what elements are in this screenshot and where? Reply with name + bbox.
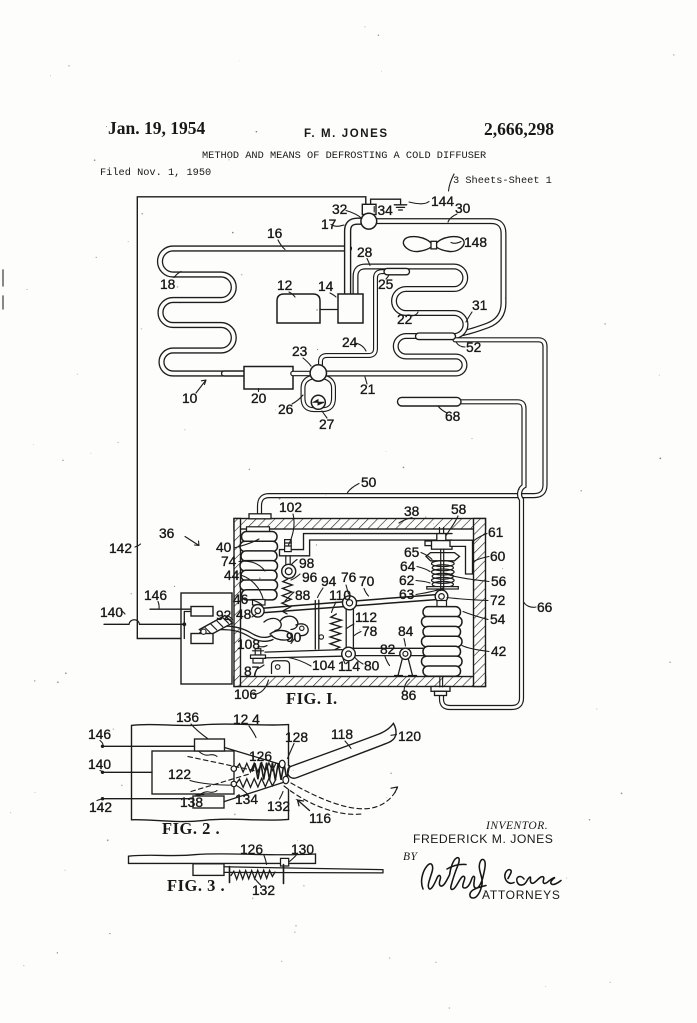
wire 142 frame: left vertical and top run to motor: [137, 197, 365, 639]
label 34: [374, 203, 393, 218]
box wall right: [474, 519, 486, 687]
svg-text:112: 112: [355, 610, 377, 625]
condenser coil 22 with discharge pipe 28: [326, 267, 466, 374]
FIG.2 labels: [88, 710, 421, 838]
svg-text:18: 18: [160, 277, 176, 292]
svg-text:FIG. I.: FIG. I.: [286, 689, 338, 708]
leader 136: [191, 724, 208, 739]
svg-text:42: 42: [491, 644, 506, 659]
svg-text:40: 40: [216, 540, 232, 555]
svg-text:98: 98: [299, 556, 315, 571]
svg-text:2,666,298: 2,666,298: [484, 119, 554, 139]
svg-text:114: 114: [338, 659, 360, 674]
svg-text:METHOD AND MEANS OF DEFROSTING: METHOD AND MEANS OF DEFROSTING A COLD DI…: [202, 150, 486, 162]
contact arm 92: [200, 616, 233, 637]
terminal block lower 142: [191, 634, 213, 644]
leader 52: [456, 342, 465, 347]
spring lower: [236, 778, 276, 787]
spring 132 side view: [231, 870, 275, 879]
svg-text:90: 90: [286, 630, 302, 645]
leader 63: [416, 588, 443, 595]
svg-text:36: 36: [159, 526, 175, 541]
leader 60: [474, 557, 490, 562]
contact arm 104: [265, 650, 342, 658]
svg-text:BY: BY: [403, 851, 419, 863]
svg-text:54: 54: [490, 612, 506, 627]
svg-text:INVENTOR.: INVENTOR.: [485, 820, 548, 832]
FIG.1 labels: [100, 500, 553, 708]
FIG.3 leaders: [256, 856, 297, 886]
svg-text:27: 27: [319, 417, 334, 432]
leader 102: [289, 514, 295, 545]
leader 22: [412, 312, 418, 316]
leader 10: [196, 380, 206, 393]
small stud on terminal: [201, 629, 206, 634]
bracket 106: [272, 661, 290, 674]
leader 126: [264, 856, 267, 865]
pivot 76: [343, 596, 357, 610]
svg-text:140: 140: [88, 757, 111, 772]
svg-text:50: 50: [361, 475, 377, 490]
leader 124: [249, 726, 256, 738]
svg-text:78: 78: [362, 624, 378, 639]
leader 98: [291, 560, 297, 566]
leader 50: [348, 484, 360, 493]
leader 132: [256, 880, 262, 886]
leader 80: [355, 658, 363, 665]
leader 21: [365, 377, 367, 384]
leaders top: [174, 211, 472, 493]
leader 110: [332, 602, 337, 613]
leader 106: [253, 680, 269, 695]
svg-text:134: 134: [235, 792, 258, 807]
svg-text:Jan. 19, 1954: Jan. 19, 1954: [108, 118, 205, 138]
leader 36 arrow: [185, 537, 199, 546]
leader 78: [354, 632, 362, 637]
leader 46: [251, 600, 262, 606]
leader 76: [346, 585, 349, 594]
svg-text:21: 21: [360, 382, 375, 397]
leader 126: [259, 763, 263, 771]
foot 86 below box: [431, 687, 450, 692]
pipe 30 condenser loop: [377, 221, 504, 333]
leader 38: [399, 518, 412, 524]
label 144: [409, 194, 454, 209]
svg-text:12: 12: [277, 278, 292, 293]
leader 20: [258, 389, 260, 392]
svg-text:132: 132: [267, 799, 290, 814]
link 12-14: [320, 309, 338, 311]
svg-text:142: 142: [109, 541, 132, 556]
FIG.2 leaders: [97, 724, 397, 801]
pipe 24 liquid line with inner tube to 25: [321, 272, 398, 365]
compressor 32: [361, 213, 377, 229]
leader 130: [290, 856, 297, 862]
leader 112: [346, 624, 354, 629]
leader 12: [289, 292, 295, 297]
pivot 84 with bracket 82: [398, 656, 413, 676]
plate 124 with break edges: [132, 724, 289, 822]
svg-text:38: 38: [404, 504, 420, 519]
svg-text:48: 48: [236, 607, 252, 622]
svg-text:102: 102: [279, 500, 302, 515]
leader 54: [463, 612, 488, 620]
leader 65: [421, 553, 432, 560]
bus wire: [184, 612, 191, 639]
bracket 100 shelf: [280, 534, 453, 556]
signature script Whitely & Caine: [422, 858, 561, 898]
bellows 40: [240, 527, 278, 605]
wire 146: [150, 608, 191, 610]
leader 90: [291, 639, 294, 644]
leader 14: [330, 293, 336, 297]
spring 56: [432, 577, 455, 583]
svg-text:63: 63: [399, 587, 415, 602]
leader 27: [322, 411, 327, 418]
capillary 66 from tube 68 down to bellows foot: [442, 402, 525, 708]
leader 23: [303, 358, 311, 366]
washer 63: [427, 587, 459, 589]
svg-text:88: 88: [295, 588, 311, 603]
svg-text:FIG. 3 .: FIG. 3 .: [167, 876, 225, 895]
clamp 128 rings: [279, 760, 285, 767]
svg-text:52: 52: [466, 340, 481, 355]
leader 74: [239, 561, 265, 571]
leader 146: [100, 741, 103, 745]
leader 48: [252, 613, 257, 617]
leader 120: [391, 734, 397, 737]
svg-text:28: 28: [357, 245, 373, 260]
svg-text:70: 70: [359, 574, 375, 589]
svg-text:F. M. JONES: F. M. JONES: [304, 128, 389, 140]
frame 78 link: [346, 604, 353, 652]
svg-text:108: 108: [237, 637, 260, 652]
evaporator coil 18 serpentine with suction line 16: [160, 249, 349, 374]
leader 40: [234, 539, 259, 548]
leader 70: [364, 589, 369, 597]
leader 96: [291, 574, 300, 580]
leader 140: [121, 611, 125, 615]
svg-text:138: 138: [180, 795, 203, 810]
svg-text:94: 94: [321, 574, 337, 589]
leader 58: [447, 516, 459, 535]
leader 142: [97, 799, 102, 801]
svg-text:120: 120: [398, 729, 421, 744]
leader 138: [196, 794, 204, 797]
bolt of 98: [285, 540, 292, 566]
svg-text:86: 86: [401, 688, 417, 703]
bellows 42 / 54: [422, 601, 463, 677]
svg-text:72: 72: [490, 593, 505, 608]
leader 62: [416, 581, 430, 584]
leader 114: [343, 659, 345, 664]
svg-text:130: 130: [291, 842, 314, 857]
holder block 138: [193, 796, 224, 808]
svg-text:104: 104: [312, 658, 335, 673]
svg-text:142: 142: [89, 800, 112, 815]
pivot 48: [251, 605, 264, 618]
svg-text:34: 34: [378, 203, 394, 218]
leader 28: [367, 259, 370, 266]
svg-text:122: 122: [168, 767, 191, 782]
svg-text:61: 61: [488, 525, 503, 540]
dashed swung blade ghost: [291, 783, 398, 809]
box wall left: [234, 519, 241, 687]
svg-text:17: 17: [321, 217, 336, 232]
leader 25: [386, 275, 389, 279]
svg-text:32: 32: [332, 202, 347, 217]
svg-text:ATTORNEYS: ATTORNEYS: [482, 888, 561, 902]
leader 32: [346, 211, 362, 219]
valve 27: [311, 395, 325, 409]
svg-text:65: 65: [404, 545, 420, 560]
motor box 34: [362, 204, 376, 214]
leader 17: [331, 225, 344, 227]
accumulator tube 68: [398, 397, 462, 406]
terminal 87: [251, 649, 266, 663]
leader 87: [258, 665, 264, 669]
wire to ground: [371, 199, 401, 204]
svg-text:26: 26: [278, 402, 294, 417]
svg-text:FREDERICK M. JONES: FREDERICK M. JONES: [413, 832, 553, 846]
opening 122: [152, 751, 234, 794]
ghost arrowhead: [391, 787, 398, 793]
valve stem: [441, 549, 444, 590]
leader 82: [385, 657, 390, 666]
svg-text:84: 84: [398, 624, 414, 639]
svg-text:116: 116: [309, 811, 331, 826]
svg-text:22: 22: [397, 312, 412, 327]
pivot 114: [342, 647, 356, 661]
svg-text:118: 118: [331, 727, 353, 742]
leader 56: [445, 574, 489, 582]
leader 66: [524, 603, 536, 608]
leader 42: [462, 646, 489, 652]
FIG.1 leaders: [121, 514, 536, 695]
unit 12: [277, 294, 320, 323]
leader 68: [438, 406, 447, 413]
leader 44: [242, 576, 263, 599]
svg-text:74: 74: [221, 554, 237, 569]
switch housing 36: [181, 593, 232, 684]
labels top system: [160, 201, 487, 490]
header text: [100, 118, 554, 187]
leader 134: [237, 786, 249, 795]
leader 128: [288, 744, 295, 759]
clip 130: [281, 858, 289, 866]
expansion valve 23: [310, 365, 326, 381]
leader 140: [100, 771, 103, 773]
ground 144: [394, 205, 406, 210]
bracket 61: [450, 540, 473, 574]
roller 98: [282, 564, 296, 578]
sensing tube 52: [416, 333, 456, 340]
motion arrow 116: [298, 800, 310, 811]
svg-text:146: 146: [88, 727, 111, 742]
leader 18: [174, 272, 181, 278]
leader 94: [318, 588, 324, 598]
pipe 20 to valve 23: [293, 371, 312, 377]
leader 16: [278, 240, 285, 250]
bottom link 80 to bellows: [352, 648, 438, 655]
svg-text:12 4: 12 4: [233, 712, 260, 727]
svg-text:3 Sheets-Sheet 1: 3 Sheets-Sheet 1: [453, 175, 552, 187]
svg-text:23: 23: [292, 344, 308, 359]
leader 24: [355, 343, 366, 351]
svg-text:148: 148: [464, 235, 487, 250]
box wall top (38): [234, 519, 486, 530]
spring 134 upper: [236, 763, 276, 772]
holder block: [193, 864, 224, 876]
blade edge-on: [224, 867, 383, 873]
heat exchanger tube end 25: [384, 268, 410, 274]
svg-text:44: 44: [224, 568, 240, 583]
wire 140 with crossover hump: [104, 620, 184, 625]
sheet leader mark: [449, 174, 455, 191]
pipe 50 capillary and riser from 52: [260, 340, 546, 516]
left edge scan marks: [2, 270, 4, 309]
leader 118: [345, 741, 351, 749]
leader 88: [285, 592, 294, 601]
main lever 70: [256, 594, 441, 613]
box wall bottom: [234, 677, 486, 687]
pipe 17 riser to compressor and down to unit 14: [348, 221, 362, 295]
spring 62: [432, 561, 455, 588]
spring 96: [282, 579, 292, 614]
svg-text:96: 96: [302, 570, 318, 585]
pivot 72: [435, 590, 448, 603]
leader 122: [190, 781, 232, 786]
bimetal coil 126/132 dense: [253, 763, 290, 780]
svg-text:132: 132: [252, 883, 275, 898]
leader 64: [417, 567, 430, 572]
leader 146: [158, 602, 159, 609]
svg-text:10: 10: [182, 391, 198, 406]
svg-text:58: 58: [451, 502, 467, 517]
leader 132: [280, 792, 284, 800]
leader 148: [451, 242, 461, 244]
unit 14: [338, 294, 363, 323]
terminal flange 102: [249, 514, 271, 519]
FIG.3 labels: [167, 842, 314, 898]
svg-text:20: 20: [251, 391, 267, 406]
svg-text:62: 62: [399, 573, 414, 588]
leader 72: [447, 598, 488, 601]
dashed ghost lines in plate: [188, 757, 398, 815]
svg-text:60: 60: [490, 549, 506, 564]
spring 112: [330, 614, 341, 650]
svg-text:64: 64: [400, 559, 416, 574]
svg-text:136: 136: [176, 710, 199, 725]
leader 108: [258, 646, 267, 647]
bypass loop 26: [303, 378, 334, 410]
leader 26: [292, 395, 303, 404]
mounting plate: [129, 854, 316, 864]
svg-text:66: 66: [537, 600, 553, 615]
defroster blade 118 / 120: [288, 723, 396, 778]
leader 86: [404, 679, 410, 692]
svg-text:146: 146: [144, 588, 167, 603]
svg-text:Filed Nov. 1, 1950: Filed Nov. 1, 1950: [100, 167, 211, 179]
svg-text:16: 16: [267, 226, 283, 241]
leader 84: [404, 639, 406, 647]
leader 30: [448, 214, 457, 222]
svg-text:68: 68: [445, 409, 461, 424]
leader 61: [474, 534, 488, 542]
blade 94 / 110: [315, 600, 319, 649]
fan 148: [403, 237, 464, 252]
svg-text:128: 128: [285, 730, 308, 745]
svg-text:144: 144: [431, 194, 454, 209]
svg-text:126: 126: [240, 842, 263, 857]
svg-text:87: 87: [244, 664, 259, 679]
leader 104: [288, 658, 311, 667]
terminal block upper 146: [191, 607, 213, 617]
leader 31: [466, 312, 472, 322]
lead wires 146/140/142: [103, 746, 195, 798]
receiver-drier 20: [224, 370, 244, 376]
svg-text:46: 46: [233, 592, 249, 607]
valve 58 assembly: [425, 528, 460, 561]
leader 142: [135, 544, 141, 547]
guide arms: [225, 748, 284, 802]
svg-text:31: 31: [472, 298, 487, 313]
armature 90: [264, 616, 308, 640]
svg-text:14: 14: [318, 279, 334, 294]
svg-text:92: 92: [216, 608, 231, 623]
svg-text:56: 56: [491, 574, 507, 589]
svg-text:76: 76: [341, 570, 357, 585]
svg-text:140: 140: [100, 605, 123, 620]
svg-text:FIG. 2 .: FIG. 2 .: [162, 819, 220, 838]
leader 92: [227, 616, 233, 620]
svg-text:82: 82: [380, 642, 395, 657]
holder block 136: [195, 739, 225, 751]
svg-text:126: 126: [249, 749, 272, 764]
svg-text:80: 80: [364, 659, 380, 674]
leaf spring 108: [211, 626, 273, 641]
junction node: [182, 622, 186, 626]
